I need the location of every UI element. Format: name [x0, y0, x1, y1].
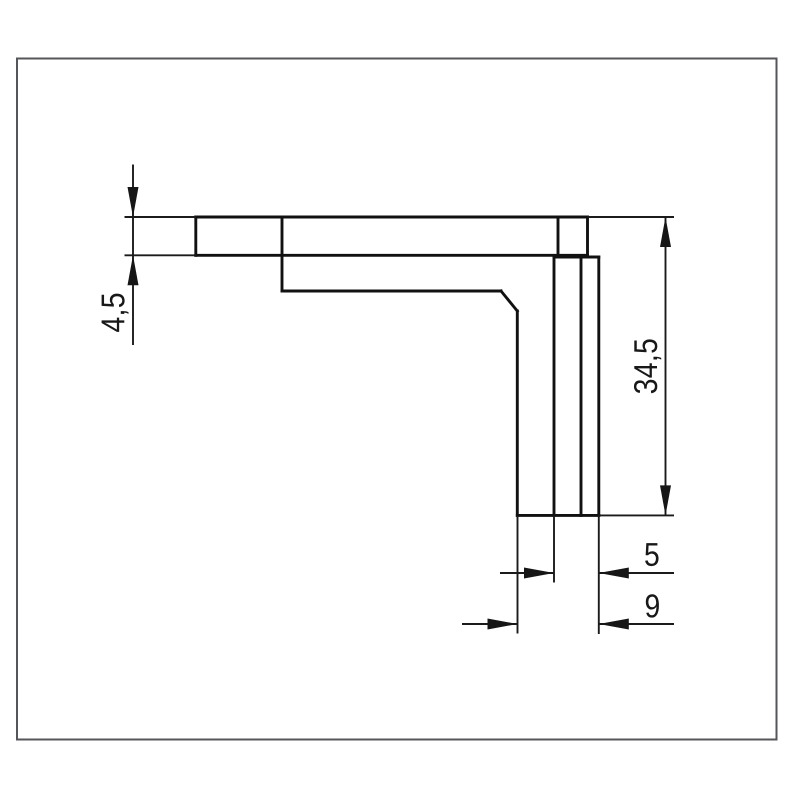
dim 4,5 bottom extension line: [125, 254, 196, 256]
dim 5 left arrowhead (points right): [524, 568, 554, 579]
connector chamfer: [501, 291, 517, 311]
horizontal profile right end cap: [586, 217, 589, 255]
dim 4,5 upper arrowhead (points down): [128, 187, 139, 217]
dim 9 dimension line right segment: [599, 623, 674, 625]
horizontal profile divider / connector left edge: [281, 217, 284, 291]
dim 5 right arrowhead (points left): [599, 568, 629, 579]
dim 5 left extension line: [553, 515, 555, 582]
vertical profile inner divider: [580, 257, 583, 515]
horizontal profile bottom edge: [196, 254, 588, 257]
dim 4,5 dimension line: [132, 165, 134, 346]
dim 5 dimension line right segment: [599, 572, 674, 574]
dim 34,5 dimension line: [665, 217, 667, 515]
dim label 34,5 (rotated): [634, 339, 661, 393]
horizontal profile left end cap: [194, 217, 197, 255]
dim 4,5 lower arrowhead (points up): [128, 255, 139, 285]
dim 9 left extension line: [517, 515, 519, 633]
dim 9 left arrowhead (points right): [488, 619, 518, 630]
horizontal profile top edge: [196, 216, 588, 219]
dim 34,5 lower arrowhead (points down): [660, 485, 671, 515]
dim 34,5 upper arrowhead (points up): [660, 217, 671, 247]
dim label 9: [646, 594, 659, 617]
connector arm bottom edge: [282, 290, 501, 293]
dim label 5: [645, 543, 658, 566]
dim 4,5 top extension line: [125, 216, 196, 218]
dim 34,5 top extension line: [588, 216, 675, 218]
vertical profile inner left edge: [553, 257, 556, 515]
dim 9 dimension line left segment: [462, 623, 518, 625]
vertical profile top seam: [554, 256, 599, 259]
dim 9 right arrowhead (points left): [599, 619, 629, 630]
vertical profile right edge: [597, 257, 600, 515]
dim 34,5 bottom extension line: [599, 514, 674, 516]
vertical profile bottom edge: [517, 514, 599, 517]
dim 5 dimension line left segment: [500, 572, 554, 574]
dim 5/9 right extension line: [598, 515, 600, 634]
dim label 4,5 (rotated): [102, 294, 129, 332]
horizontal profile right inner divider: [557, 217, 560, 255]
connector vertical outer left edge: [516, 311, 519, 515]
